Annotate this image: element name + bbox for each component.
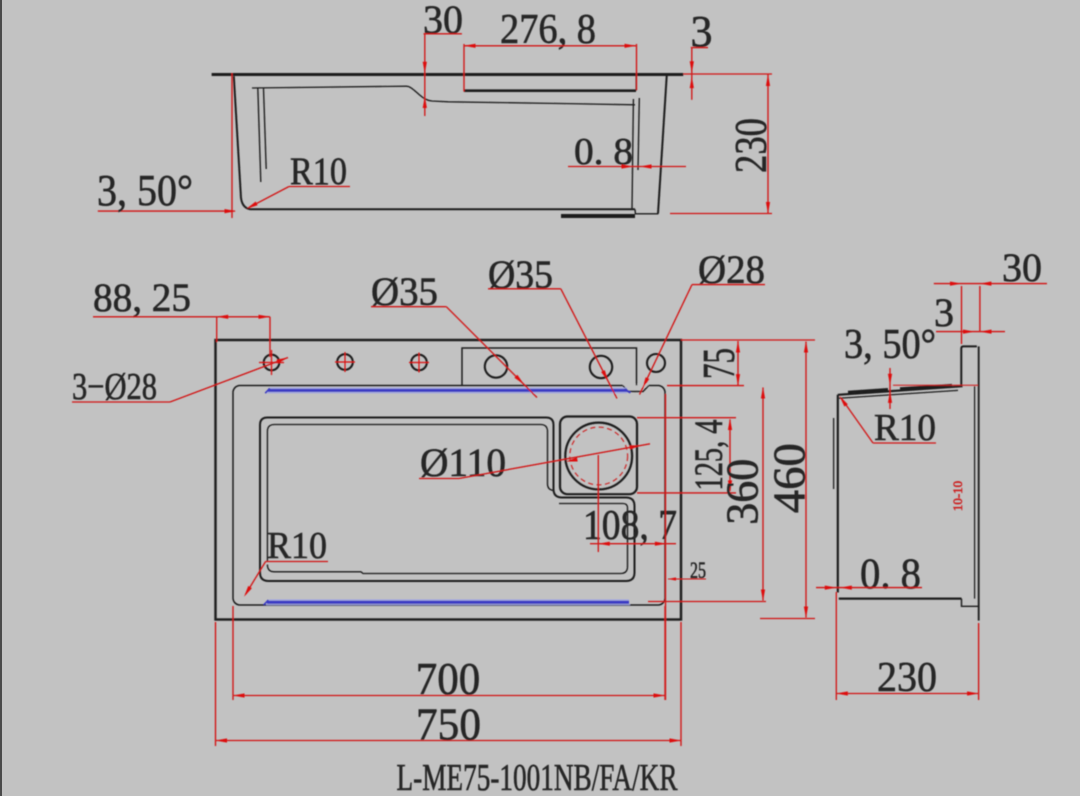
svg-text:75: 75: [694, 348, 744, 379]
svg-text:3: 3: [691, 7, 713, 56]
svg-text:3: 3: [934, 290, 954, 335]
svg-text:0. 8: 0. 8: [860, 551, 921, 598]
svg-text:3, 50°: 3, 50°: [844, 322, 936, 368]
svg-text:30: 30: [423, 0, 463, 42]
svg-text:460: 460: [765, 443, 815, 513]
svg-text:750: 750: [416, 699, 481, 750]
svg-text:R10: R10: [267, 525, 327, 567]
svg-text:700: 700: [416, 653, 481, 704]
svg-text:R10: R10: [290, 150, 347, 193]
svg-text:L-ME75-1001NB/FA/KR: L-ME75-1001NB/FA/KR: [397, 757, 678, 796]
svg-text:108, 7: 108, 7: [583, 503, 677, 549]
svg-text:Ø35: Ø35: [488, 252, 553, 297]
svg-text:88, 25: 88, 25: [93, 275, 191, 320]
svg-text:230: 230: [877, 655, 937, 701]
svg-text:230: 230: [726, 118, 776, 173]
svg-text:10-10: 10-10: [950, 481, 965, 511]
svg-text:3, 50°: 3, 50°: [97, 166, 193, 215]
svg-text:360: 360: [718, 459, 768, 525]
